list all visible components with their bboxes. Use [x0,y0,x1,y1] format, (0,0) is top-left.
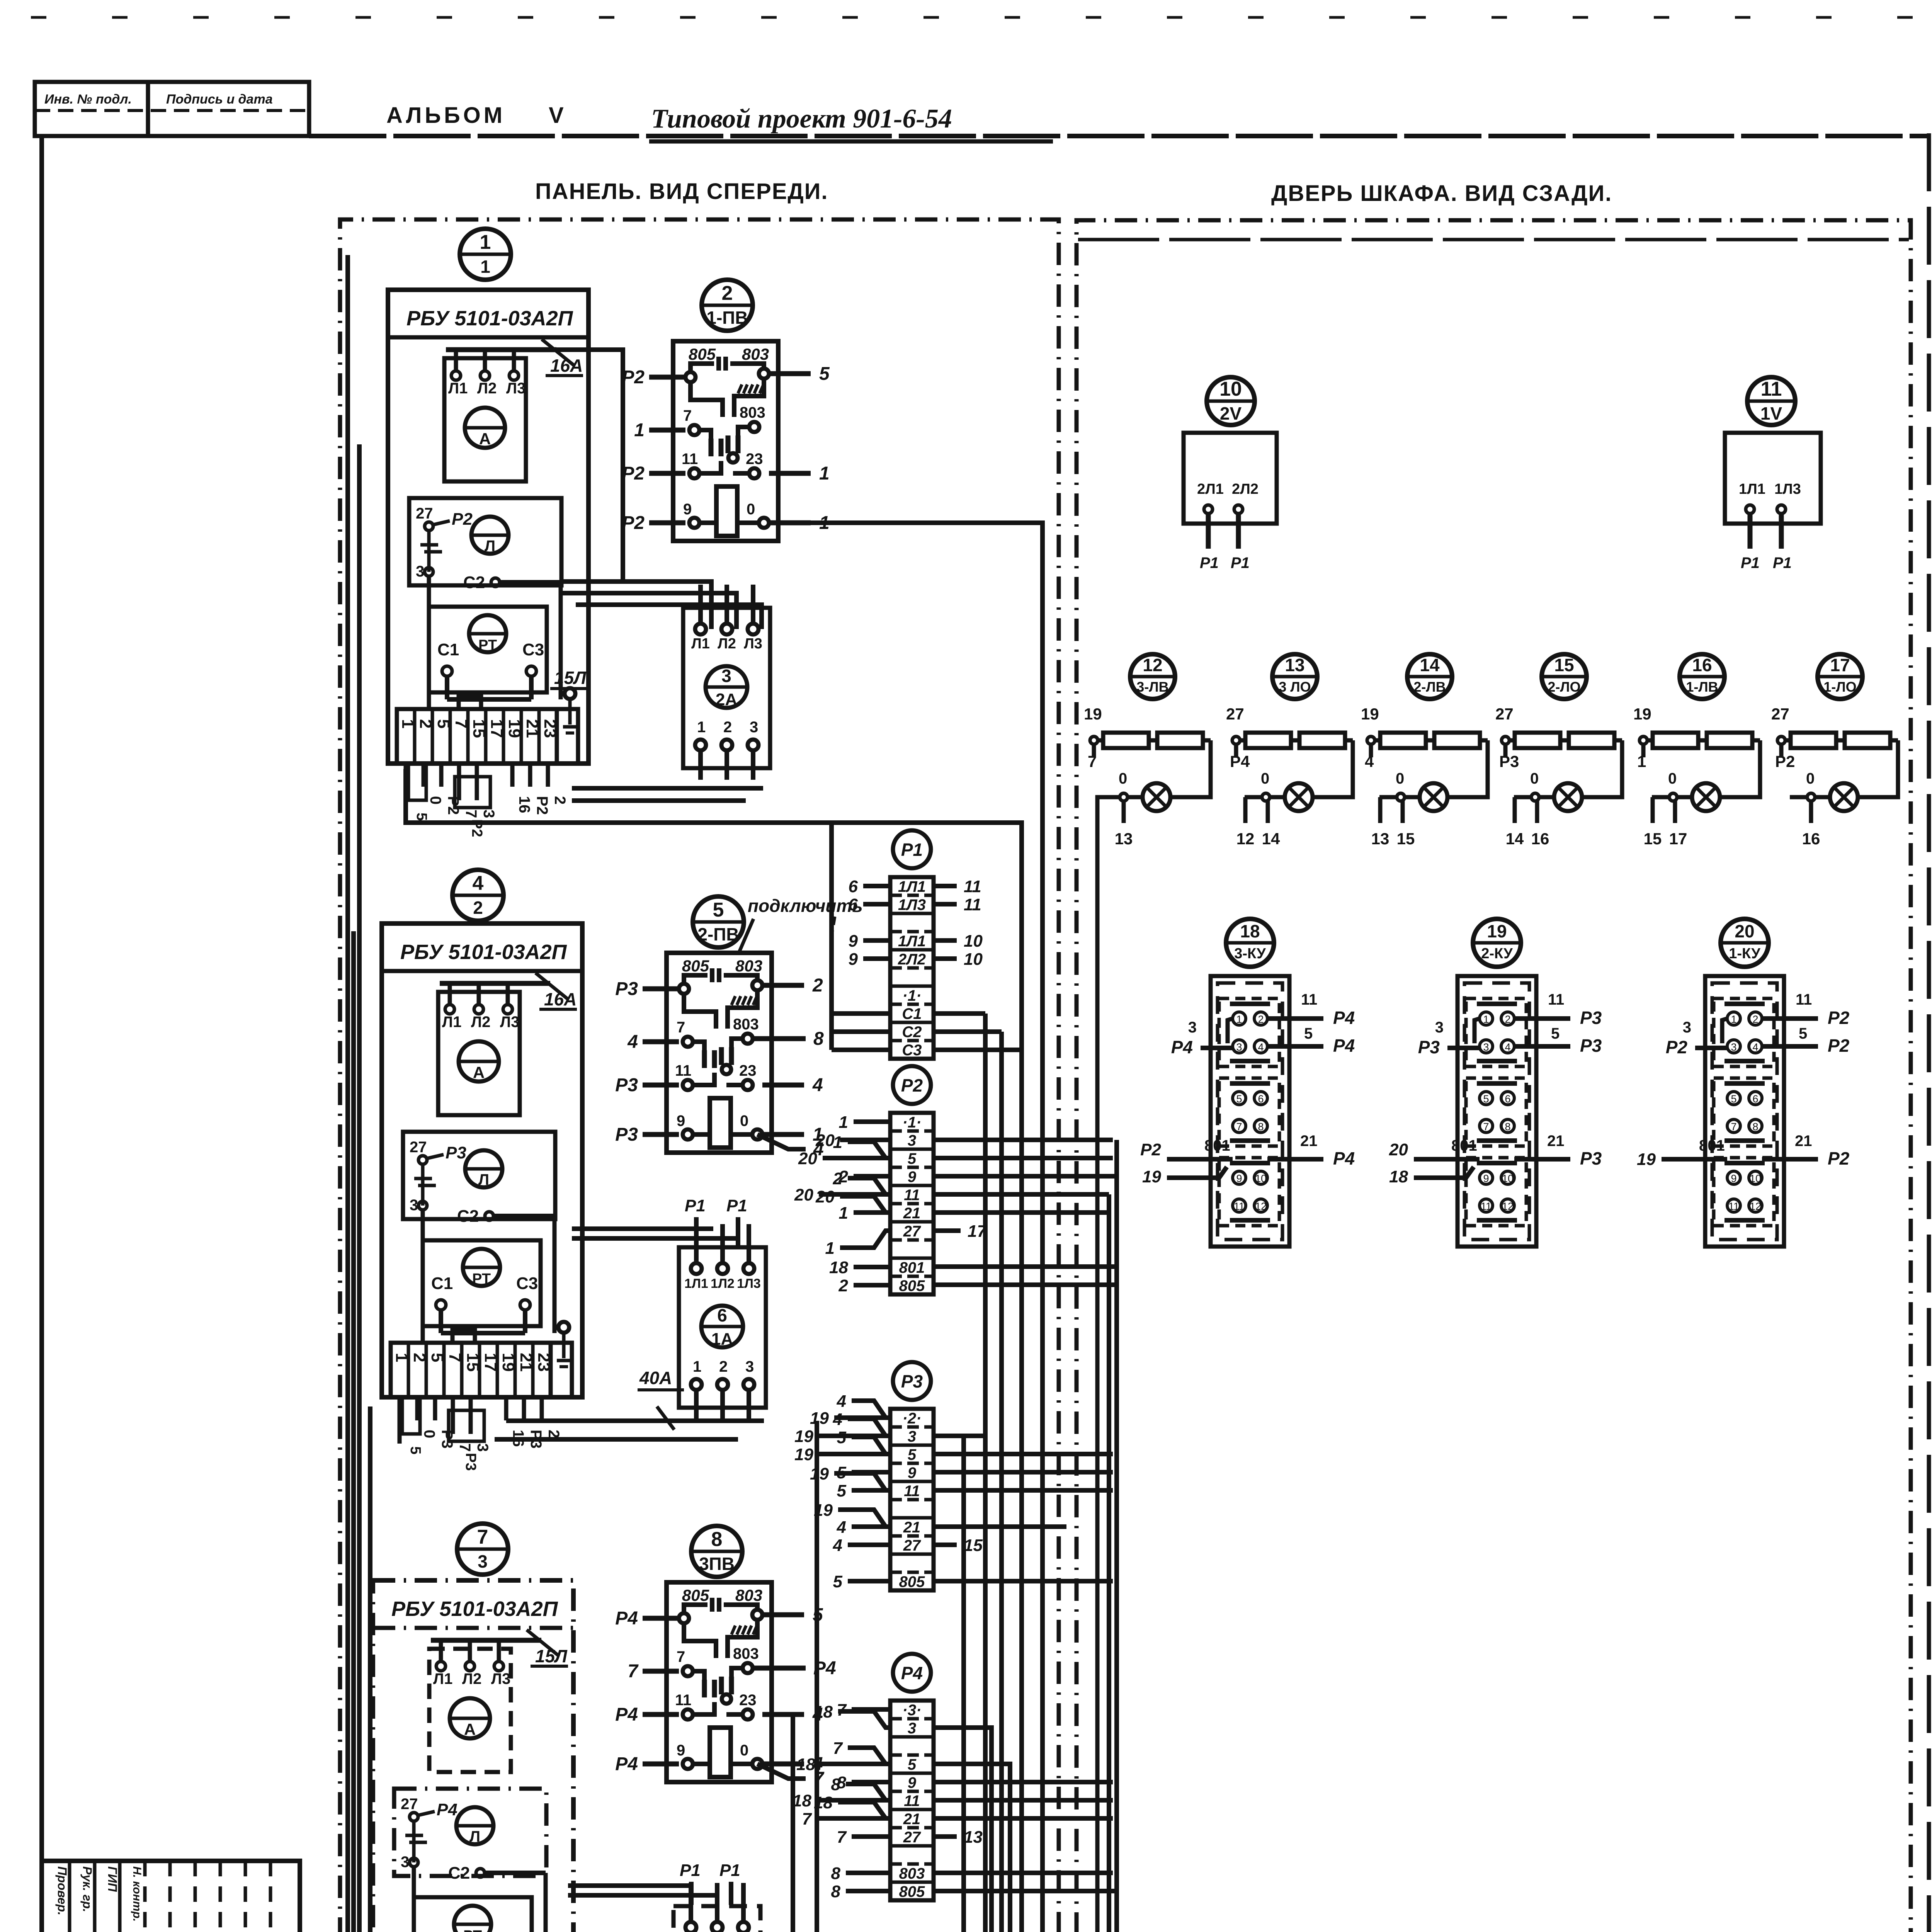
svg-text:3: 3 [908,1428,916,1445]
command device 18/3-КУ [1140,919,1355,1247]
svg-text:3: 3 [745,1358,754,1375]
svg-text:5: 5 [833,1572,843,1591]
svg-text:803: 803 [740,404,765,421]
time relay 2/1-ПВ id circle [702,280,753,331]
svg-text:2V: 2V [1220,403,1242,423]
svg-text:8: 8 [1752,1121,1758,1133]
wire vertical 2052 from contactor9 region down [791,1716,795,1932]
svg-text:8: 8 [813,1029,824,1049]
svg-text:РТ: РТ [463,1928,482,1932]
svg-text:1-ЛВ: 1-ЛВ [1686,679,1718,695]
svg-text:Р4: Р4 [901,1663,923,1683]
svg-text:2: 2 [833,1169,843,1188]
svg-text:4: 4 [473,872,484,895]
svg-text:3: 3 [478,1551,488,1571]
svg-text:16А: 16А [544,989,577,1009]
svg-text:803: 803 [733,1645,759,1662]
svg-text:5: 5 [713,899,724,921]
transformer 11/1V id circle [1747,377,1795,425]
svg-text:С3: С3 [516,1274,538,1293]
svg-text:16А: 16А [550,355,583,376]
svg-text:8: 8 [831,1882,841,1901]
svg-text:Р2: Р2 [901,1075,923,1095]
wires block3 to contactor9 [568,1886,717,1895]
svg-text:18: 18 [829,1258,848,1277]
svg-text:АЛЬБОМ: АЛЬБОМ [386,103,505,128]
svg-text:7: 7 [677,1019,685,1036]
svg-text:3: 3 [721,666,731,686]
label подключить with dashed wire [739,896,863,953]
svg-text:19: 19 [1142,1167,1161,1186]
wire trunk С1 down [983,1014,988,1932]
lamp 17/1-ЛО unit [1771,654,1898,848]
svg-text:11: 11 [1548,991,1564,1008]
svg-text:Р2: Р2 [622,463,645,484]
starter РБУ 5101-03А2П unit 2 [382,923,582,1471]
svg-text:15Л: 15Л [535,1646,568,1666]
svg-text:23: 23 [746,451,763,468]
svg-text:Н. контр.: Н. контр. [131,1866,143,1922]
svg-text:10: 10 [964,932,983,951]
svg-text:21: 21 [903,1811,921,1828]
svg-text:27: 27 [410,1139,427,1156]
svg-text:19: 19 [810,1409,829,1428]
svg-text:10: 10 [964,950,983,969]
connector table Р3 [794,1362,983,1591]
svg-text:9: 9 [849,932,858,951]
svg-text:1Л1: 1Л1 [684,1276,708,1291]
svg-text:17: 17 [1830,655,1850,675]
svg-text:Л2: Л2 [471,1014,490,1031]
svg-text:Р1: Р1 [726,1196,747,1215]
svg-text:9: 9 [849,950,858,969]
svg-text:6: 6 [849,895,858,914]
svg-text:Л3: Л3 [506,380,526,397]
svg-text:27: 27 [416,505,433,522]
svg-text:Р2: Р2 [1828,1008,1850,1028]
svg-text:1: 1 [634,420,645,440]
svg-text:27: 27 [903,1829,921,1846]
svg-text:Р3: Р3 [1418,1037,1440,1057]
svg-text:Р3: Р3 [615,979,638,999]
svg-text:Р2: Р2 [452,510,473,529]
svg-text:Р4: Р4 [437,1800,457,1819]
svg-text:1Л1: 1Л1 [898,878,926,895]
svg-text:10: 10 [1255,1173,1267,1184]
handwritten title Типовой проект 901-6-54 [649,104,1053,141]
svg-text:20: 20 [815,1131,835,1150]
svg-text:18: 18 [1389,1167,1408,1186]
svg-text:27: 27 [401,1796,418,1813]
svg-text:2Л1: 2Л1 [1197,481,1224,497]
svg-text:5: 5 [819,364,830,384]
frame right double dashed border [1929,133,1932,1932]
svg-text:3: 3 [1188,1019,1197,1036]
svg-text:18: 18 [793,1791,811,1810]
svg-text:6: 6 [717,1305,727,1325]
svg-text:1Л3: 1Л3 [898,896,926,913]
svg-text:Л3: Л3 [491,1670,510,1687]
svg-text:Р3: Р3 [1580,1008,1602,1028]
svg-text:Р1: Р1 [680,1861,701,1880]
svg-text:803: 803 [742,345,769,363]
contactor 6/1А block [679,1224,766,1419]
svg-text:С2: С2 [448,1864,470,1883]
svg-text:·3·: ·3· [903,1702,922,1719]
svg-text:11: 11 [1796,991,1812,1008]
svg-text:11: 11 [1481,1201,1492,1212]
svg-text:Л1: Л1 [442,1014,461,1031]
svg-text:4: 4 [627,1032,638,1052]
svg-text:16: 16 [1802,830,1820,848]
svg-text:С1: С1 [437,640,459,659]
svg-text:805: 805 [689,345,716,363]
svg-text:С1: С1 [431,1274,453,1293]
svg-text:Р2: Р2 [1775,752,1795,770]
command device 20/1-КУ [1637,919,1850,1247]
svg-text:Р1: Р1 [1773,554,1792,571]
svg-text:3-КУ: 3-КУ [1234,946,1266,962]
svg-text:15: 15 [1554,655,1574,675]
svg-text:7: 7 [456,1443,473,1452]
svg-text:Р4: Р4 [1333,1036,1355,1056]
wires Р2 rows to door trunk [934,1140,1117,1285]
svg-text:15Л: 15Л [554,668,587,688]
label АЛЬБОМ V [386,103,564,128]
svg-text:7: 7 [802,1810,813,1828]
svg-text:1: 1 [833,1133,842,1152]
svg-text:27: 27 [903,1537,921,1554]
svg-text:10: 10 [1219,378,1242,400]
svg-text:0: 0 [740,1742,748,1759]
svg-text:5: 5 [908,1150,917,1167]
svg-text:1: 1 [480,231,491,253]
svg-text:9: 9 [677,1742,685,1759]
svg-text:2-ПВ: 2-ПВ [697,924,739,944]
svg-text:Р2: Р2 [1666,1037,1688,1057]
svg-text:3: 3 [1731,1041,1736,1053]
component circle 1/1 [460,229,511,280]
svg-text:6: 6 [1505,1093,1510,1105]
svg-text:С1: С1 [902,1005,922,1022]
svg-text:ГИП: ГИП [105,1866,119,1892]
svg-text:Л1: Л1 [448,380,468,397]
svg-text:Л1: Л1 [433,1670,452,1687]
svg-text:2: 2 [1752,1014,1758,1025]
svg-text:19: 19 [1633,705,1651,723]
svg-text:805: 805 [682,957,709,975]
svg-text:6: 6 [849,877,858,896]
wire horizontals block1 to contactor3 [562,582,762,629]
svg-text:21: 21 [1547,1133,1565,1150]
svg-text:11: 11 [675,1692,691,1709]
lamp 14/2-ЛВ unit [1361,654,1488,848]
svg-text:1А: 1А [711,1330,733,1349]
contactor 9/3А block [673,1883,760,1932]
frame outer border left [39,135,44,1932]
svg-text:27: 27 [1771,705,1789,723]
svg-text:9: 9 [1731,1173,1736,1184]
svg-text:15: 15 [964,1536,983,1555]
svg-text:Р2: Р2 [1828,1148,1850,1168]
panel dash-dot border [340,219,1059,1932]
svg-text:Л1: Л1 [691,636,710,652]
svg-text:801: 801 [1699,1137,1725,1154]
svg-text:805: 805 [682,1586,709,1604]
svg-text:Р3: Р3 [1499,752,1519,770]
svg-text:27: 27 [1226,705,1244,723]
svg-text:Л3: Л3 [500,1014,519,1031]
svg-text:Л: Л [485,537,495,554]
svg-text:5: 5 [413,813,430,821]
svg-text:РБУ 5101-03А2П: РБУ 5101-03А2П [391,1597,558,1621]
svg-text:5: 5 [407,1446,423,1454]
svg-text:Р1: Р1 [1741,554,1760,571]
wire left risers to bottom cables [348,255,370,1932]
svg-text:803: 803 [899,1865,925,1882]
component circle 4/2 [452,870,503,921]
wire relay5 extra right stub 8 and 4 [753,1029,824,1160]
svg-text:0: 0 [1261,770,1269,787]
svg-text:Р4: Р4 [1230,752,1250,770]
svg-text:2: 2 [551,796,568,804]
svg-text:7: 7 [628,1661,639,1682]
svg-text:18: 18 [1240,921,1260,941]
svg-text:5: 5 [1799,1025,1807,1042]
svg-text:Р3: Р3 [615,1124,638,1145]
svg-text:12: 12 [1502,1201,1514,1212]
svg-text:21: 21 [903,1519,921,1536]
lamp 16/1-ЛВ unit [1633,654,1760,848]
svg-text:801: 801 [1204,1137,1230,1154]
svg-text:1: 1 [697,719,706,736]
svg-text:Р3: Р3 [446,1143,466,1162]
svg-text:·1·: ·1· [903,987,922,1004]
svg-text:27: 27 [1495,705,1514,723]
svg-text:805: 805 [899,1573,925,1590]
svg-text:0: 0 [1530,770,1539,787]
svg-text:11: 11 [904,1793,920,1810]
svg-text:9: 9 [683,501,692,518]
svg-text:3: 3 [1683,1019,1691,1036]
wire door margin vertical A [1107,1194,1111,1932]
wire top margin dashed trim line [31,16,1932,19]
svg-text:2: 2 [545,1430,562,1438]
svg-text:1: 1 [1731,1014,1736,1025]
label Р1 Р1 above contactor 9 [680,1861,740,1905]
svg-text:0: 0 [427,796,444,804]
svg-text:3 ЛО: 3 ЛО [1279,679,1311,695]
contactor 3/2А id and block [683,585,770,780]
lamp 13/3-ЛО unit [1226,654,1353,848]
frame top border [309,134,1929,138]
svg-text:1Л1: 1Л1 [1739,481,1765,497]
svg-text:19: 19 [1361,705,1379,723]
svg-text:3: 3 [1483,1041,1489,1053]
svg-text:V: V [549,103,564,128]
svg-text:10: 10 [1750,1173,1761,1184]
svg-text:3: 3 [908,1720,916,1737]
svg-text:14: 14 [1262,830,1280,848]
svg-text:0: 0 [747,501,755,518]
svg-text:0: 0 [421,1430,438,1438]
svg-text:7: 7 [677,1648,685,1665]
component circle 7/3 [457,1524,508,1575]
svg-text:4: 4 [1505,1041,1510,1053]
door dash-dot border [1077,220,1911,1932]
svg-text:13: 13 [1285,655,1304,675]
svg-text:Р4: Р4 [1333,1148,1355,1168]
label Р1 Р1 above contactor 6 [685,1196,747,1246]
svg-text:1Л3: 1Л3 [737,1276,761,1291]
svg-text:8: 8 [1258,1121,1264,1133]
svg-text:Р3: Р3 [1580,1148,1602,1168]
wire vertical 2114 from contactor6 region down [815,1421,819,1932]
svg-text:7: 7 [463,810,480,818]
svg-text:Рук. гр.: Рук. гр. [80,1866,94,1912]
svg-text:4: 4 [837,1518,846,1537]
starter РБУ 5101-03А2П unit 1 [388,290,588,837]
svg-text:РТ: РТ [472,1271,491,1287]
svg-text:20: 20 [1389,1140,1408,1159]
svg-text:13: 13 [1115,830,1133,848]
svg-text:11: 11 [1761,378,1782,400]
svg-text:20: 20 [1735,921,1754,941]
svg-text:Р1: Р1 [1200,554,1219,571]
svg-text:5: 5 [1304,1025,1313,1042]
svg-text:Р3: Р3 [615,1075,638,1095]
svg-text:16: 16 [1692,655,1712,675]
svg-text:0: 0 [740,1112,748,1129]
wire top feed block1 to right [556,350,623,582]
svg-text:2: 2 [838,1276,849,1295]
svg-text:5: 5 [1731,1093,1736,1105]
svg-text:Р2: Р2 [622,367,645,388]
svg-text:803: 803 [735,1586,762,1604]
svg-text:805: 805 [899,1883,925,1900]
svg-text:РТ: РТ [478,637,497,653]
svg-text:5: 5 [1551,1025,1560,1042]
svg-text:3-ЛВ: 3-ЛВ [1136,679,1168,695]
svg-text:6: 6 [1258,1093,1264,1105]
svg-text:1: 1 [819,463,830,484]
svg-text:1: 1 [1236,1014,1242,1025]
svg-text:12: 12 [1255,1201,1267,1212]
svg-text:Р4: Р4 [615,1704,638,1725]
svg-text:7: 7 [1483,1121,1489,1133]
svg-text:ДВЕРЬ ШКАФА. ВИД СЗАДИ.: ДВЕРЬ ШКАФА. ВИД СЗАДИ. [1271,181,1612,206]
svg-text:Подпись и дата: Подпись и дата [166,92,273,107]
svg-text:0: 0 [1119,770,1127,787]
svg-text:12: 12 [1750,1201,1761,1212]
svg-text:2: 2 [1505,1014,1510,1025]
svg-text:Л2: Л2 [718,636,736,652]
svg-text:14: 14 [1506,830,1524,848]
svg-text:9: 9 [677,1112,685,1129]
svg-text:С2: С2 [463,573,485,592]
svg-text:11: 11 [964,877,981,896]
svg-text:21: 21 [1300,1133,1318,1150]
svg-text:20: 20 [794,1185,813,1204]
transformer 10/2V id circle [1207,377,1255,425]
svg-text:С3: С3 [902,1042,922,1059]
svg-text:5: 5 [837,1428,847,1447]
svg-text:·2·: ·2· [903,1410,922,1427]
svg-text:3: 3 [1236,1041,1242,1053]
svg-text:3: 3 [1435,1019,1444,1036]
time relay 8/3ПВ block [615,1582,823,1782]
wires below contactor3 returning left [572,788,763,801]
svg-text:3ПВ: 3ПВ [699,1554,735,1574]
svg-text:4: 4 [833,1410,842,1429]
svg-text:Р2: Р2 [622,513,645,533]
svg-text:7: 7 [683,407,692,424]
starter РБУ 5101-03А2П unit 3 [373,1580,573,1932]
svg-text:11: 11 [675,1062,691,1079]
svg-text:Л2: Л2 [477,380,497,397]
svg-text:11: 11 [904,1187,920,1204]
svg-text:801: 801 [899,1259,925,1276]
svg-text:12: 12 [1143,655,1162,675]
svg-text:0: 0 [1396,770,1404,787]
svg-text:27: 27 [903,1223,921,1240]
svg-text:4: 4 [812,1075,823,1095]
svg-text:2: 2 [473,898,483,918]
svg-text:23: 23 [739,1062,757,1079]
svg-text:1Л1: 1Л1 [898,933,926,950]
svg-text:3: 3 [750,719,758,736]
svg-text:С3: С3 [522,640,544,659]
svg-text:1: 1 [1483,1014,1489,1025]
svg-text:21: 21 [903,1205,921,1222]
svg-text:Р4: Р4 [615,1608,638,1629]
title block signature table [42,1861,300,1932]
svg-text:·1·: ·1· [903,1114,922,1131]
svg-text:Р4: Р4 [1171,1037,1193,1057]
svg-text:2: 2 [812,975,823,996]
svg-text:Провер.: Провер. [55,1866,69,1915]
svg-text:8: 8 [711,1528,723,1551]
svg-text:Л2: Л2 [462,1670,481,1687]
svg-text:2: 2 [722,282,733,304]
svg-text:Л: Л [478,1171,489,1188]
svg-text:21: 21 [1795,1133,1812,1150]
time relay 8/3ПВ id circle [691,1526,742,1577]
transformer 10/2V box [1184,433,1277,571]
svg-text:803: 803 [735,957,762,975]
svg-text:1: 1 [480,257,490,277]
svg-text:16: 16 [516,796,533,813]
svg-text:5: 5 [908,1446,917,1463]
svg-text:13: 13 [964,1828,983,1847]
command device 19/2-КУ [1389,919,1602,1247]
time relay 5/2-ПВ id circle [693,896,744,947]
svg-text:2-ЛО: 2-ЛО [1548,679,1580,695]
svg-text:1-КУ: 1-КУ [1729,946,1760,962]
svg-text:Р1: Р1 [901,840,923,860]
svg-text:9: 9 [908,1774,917,1791]
svg-text:1: 1 [693,1358,701,1375]
svg-text:4: 4 [1752,1041,1758,1053]
svg-text:Инв. № подл.: Инв. № подл. [44,92,132,107]
svg-text:2А: 2А [716,690,737,709]
svg-text:А: А [479,430,491,448]
stamp box Инв.№ подл / Подпись и дата [35,82,309,136]
svg-text:16: 16 [1531,830,1549,848]
wire relay8 extra right stub Р4 and 7 [753,1658,836,1789]
svg-text:2: 2 [1258,1014,1264,1025]
svg-text:1V: 1V [1760,403,1782,423]
